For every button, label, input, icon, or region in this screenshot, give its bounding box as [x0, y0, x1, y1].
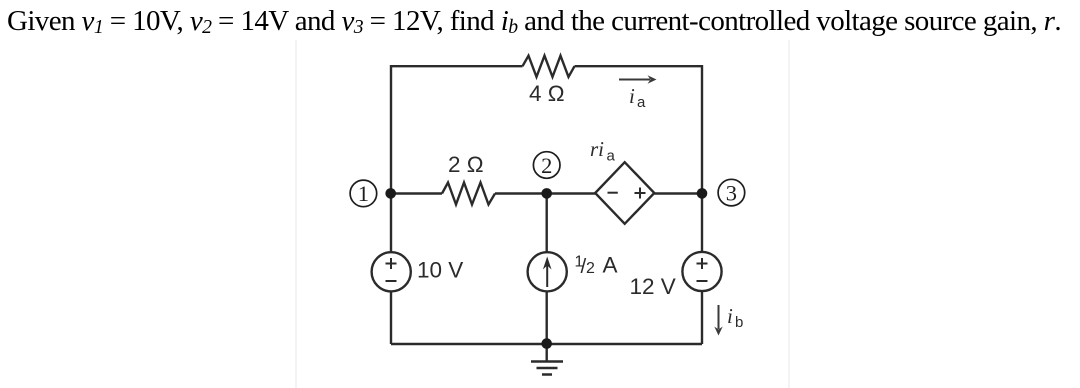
voltage source V1 10V circle [372, 252, 411, 291]
ground bar 1 [531, 360, 563, 363]
node 3 junction dot [697, 188, 708, 199]
current source I1 1/2A circle [528, 252, 567, 291]
svg-text:12 V: 12 V [630, 274, 676, 299]
plus sign inside 10V source [386, 258, 397, 269]
current source arrowhead [543, 257, 552, 270]
svg-text:a: a [637, 94, 646, 111]
i_a current arrow shaft [619, 79, 650, 81]
i_b current arrow shaft [718, 305, 720, 329]
ground bar 2 [537, 367, 558, 370]
plus sign inside 12V source [697, 258, 708, 269]
wire: bottom rail [391, 343, 702, 345]
problem statement text [7, 5, 1061, 38]
resistor R 4ohm zigzag [523, 56, 575, 77]
wire: right branch lower (12V source to bottom) [701, 291, 703, 344]
node label circle 3 [718, 179, 745, 206]
i_a current arrowhead [648, 75, 657, 83]
current source arrow shaft [546, 261, 548, 287]
svg-text:2 Ω: 2 Ω [448, 152, 484, 177]
i_b current arrowhead [714, 327, 722, 336]
node label circle 2 [533, 152, 560, 179]
svg-text:1/2A: 1/2A [575, 253, 618, 279]
wire: current source to ground node [546, 291, 548, 344]
ground stub wire [546, 344, 548, 362]
wire: top-left segment [391, 66, 523, 193]
node 1 junction dot [385, 188, 396, 199]
wire: left branch upper (node1 to 10V source) [390, 194, 392, 253]
svg-text:2: 2 [541, 153, 552, 178]
node label circle 1 [350, 180, 377, 207]
wire: left branch lower (10V source to bottom) [390, 291, 392, 344]
svg-text:a: a [607, 148, 616, 165]
svg-text:i: i [629, 84, 635, 108]
wire: 2ohm resistor to node2 to diamond [495, 192, 595, 194]
svg-text:3: 3 [726, 180, 737, 205]
wire: diamond to node3 [654, 192, 702, 194]
node 2 junction dot [541, 188, 552, 199]
svg-text:10 V: 10 V [417, 258, 463, 283]
wire: node2 to current source [546, 194, 548, 253]
minus sign inside 12V source [697, 280, 708, 282]
minus sign inside 10V source [386, 280, 397, 282]
ground junction dot [541, 338, 552, 349]
plus sign inside diamond [635, 188, 646, 199]
wire: right branch upper (node3 to 12V source) [701, 194, 703, 253]
svg-text:1: 1 [358, 181, 369, 206]
svg-text:i: i [727, 304, 733, 328]
wire: node1 to 2ohm resistor [391, 192, 442, 194]
svg-text:ri: ri [590, 137, 604, 161]
voltage source V3 12V circle [682, 252, 721, 291]
figure edge line left [295, 40, 297, 388]
svg-text:b: b [735, 314, 743, 331]
figure edge line right [788, 40, 790, 388]
ground bar 3 [542, 373, 552, 376]
svg-text:4 Ω: 4 Ω [529, 81, 565, 106]
minus sign inside diamond [608, 192, 618, 194]
wire: top-right segment [575, 66, 703, 193]
resistor R 2ohm zigzag [442, 183, 495, 205]
dependent source diamond ri_a [595, 162, 654, 224]
